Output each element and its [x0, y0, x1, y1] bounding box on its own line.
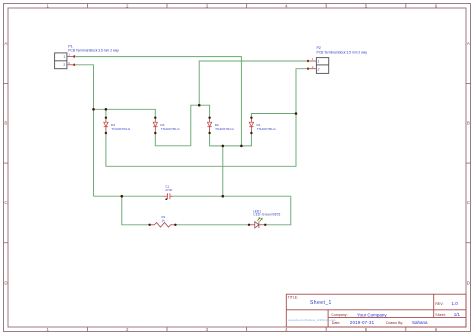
junction P2.1 branch — [198, 104, 201, 107]
svg-text:Sahana: Sahana — [412, 320, 428, 325]
wires — [76, 57, 306, 225]
svg-text:A: A — [467, 41, 470, 46]
svg-text:Drawn By:: Drawn By: — [386, 321, 403, 325]
svg-text:Your Company: Your Company — [357, 312, 387, 317]
led LED1 — [248, 218, 267, 228]
junction cap line bridge output — [222, 195, 225, 198]
svg-text:1/1: 1/1 — [454, 312, 461, 317]
connector P2 — [307, 57, 329, 73]
wire R1 to LED1 — [175, 224, 249, 226]
wire D2 bottom bus D1 — [210, 133, 252, 146]
junction D1 top to P2.2 line — [295, 112, 298, 115]
wire bridge out vertical — [222, 146, 224, 196]
title block texts — [288, 296, 461, 325]
svg-text:+: + — [166, 192, 168, 196]
wire bottom loop — [122, 196, 150, 225]
wire LED1 to riser — [265, 196, 291, 225]
svg-text:Sheet:: Sheet: — [435, 313, 445, 317]
junction D4 top — [105, 108, 108, 111]
diode D4 — [104, 117, 108, 135]
svg-text:D: D — [4, 281, 7, 286]
svg-text:1: 1 — [318, 59, 320, 63]
svg-text:TITLE:: TITLE: — [288, 296, 299, 300]
resistor R1 — [148, 223, 176, 228]
wire D1 top — [251, 114, 296, 118]
junction bridge output upper — [222, 145, 225, 148]
diode D3 — [153, 117, 157, 135]
svg-text:easyeda.com/Sahana_123/bridge-: easyeda.com/Sahana_123/bridge-rect — [288, 318, 336, 322]
diode D2 — [207, 117, 211, 135]
svg-text:C: C — [467, 200, 470, 205]
title block — [286, 294, 466, 327]
svg-text:TN4007RLG: TN4007RLG — [111, 127, 130, 131]
wire cap line right — [173, 195, 290, 197]
connector P1 — [55, 53, 76, 69]
svg-text:PCB Terminal Block 3.5 mm 2 wa: PCB Terminal Block 3.5 mm 2 way — [317, 50, 368, 54]
svg-text:REV:: REV: — [435, 302, 443, 306]
wire P1 pin1 rail — [76, 57, 241, 146]
svg-text:PCB Terminal Block 3.5 mm 2 wa: PCB Terminal Block 3.5 mm 2 way — [68, 48, 119, 52]
svg-text:C: C — [4, 200, 7, 205]
svg-text:TN4007RLG: TN4007RLG — [215, 127, 234, 131]
diode D1 — [249, 117, 253, 135]
svg-text:A: A — [4, 41, 7, 46]
svg-text:1.0: 1.0 — [452, 301, 459, 306]
wire cap line left — [94, 195, 165, 197]
svg-text:B: B — [467, 121, 470, 126]
svg-text:2: 2 — [318, 68, 320, 72]
junction P1.2 bus — [92, 108, 95, 111]
svg-text:LED-Green0805: LED-Green0805 — [254, 212, 281, 216]
svg-text:TN4007RLG: TN4007RLG — [257, 127, 276, 131]
svg-text:47uF: 47uF — [165, 188, 172, 192]
svg-text:B: B — [4, 121, 7, 126]
wire D4 bottom to right bus — [106, 69, 306, 167]
wire bus D4 D3 top — [94, 109, 156, 117]
svg-text:1: 1 — [63, 55, 65, 59]
wire P2 pin1 — [199, 61, 306, 105]
capacitor C1 — [164, 192, 173, 200]
svg-text:2019-07-31: 2019-07-31 — [350, 320, 375, 325]
junction cap line to bottom loop — [121, 195, 124, 198]
junction P1.1 rail to bus — [240, 145, 243, 148]
svg-text:TN4007RLG: TN4007RLG — [161, 127, 180, 131]
svg-text:Sheet_1: Sheet_1 — [310, 300, 332, 306]
svg-text:Company:: Company: — [331, 313, 347, 317]
wire P1 pin2 — [76, 65, 94, 196]
svg-text:1k: 1k — [162, 218, 166, 222]
wire D4 top stub — [105, 109, 107, 117]
svg-text:2: 2 — [63, 63, 65, 67]
wire D3 bottom to D2 top — [155, 105, 209, 146]
svg-text:D: D — [467, 281, 470, 286]
